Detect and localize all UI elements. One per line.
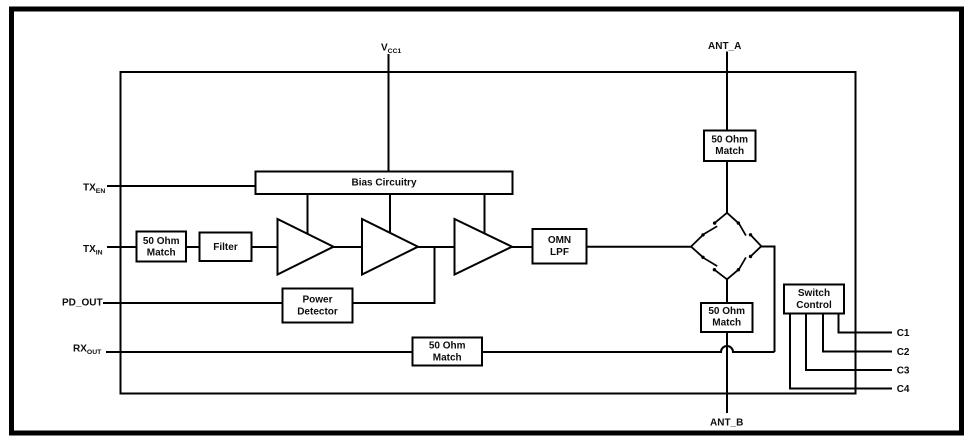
wire amplifier 3 to OMN LPF — [512, 246, 533, 248]
switch arm upper-right — [739, 224, 746, 236]
svg-text:50 Ohm: 50 Ohm — [143, 236, 180, 247]
switch arm upper-left — [703, 226, 717, 234]
svg-text:Bias Circuitry: Bias Circuitry — [351, 178, 416, 189]
svg-text:Match: Match — [715, 146, 744, 157]
wire Switch Control to C1 — [839, 314, 893, 333]
switch contact dot left-upper — [701, 233, 704, 236]
svg-text:C2: C2 — [897, 347, 910, 358]
switch contact dot right-upper — [749, 233, 752, 236]
wire switch right pole to RX line — [761, 247, 775, 353]
wire 50 Ohm Match (ANT_B) to ANT_B pin — [726, 332, 728, 413]
wire Switch Control to C3 — [806, 314, 892, 371]
wire Switch Control to C4 — [790, 314, 892, 389]
switch SP2T: top pole stub right — [727, 213, 738, 223]
switch arm lower-right — [739, 257, 746, 269]
wire 50 Ohm Match (RX) to switch right riser with hop over ANT_B — [482, 346, 775, 352]
svg-text:PD_OUT: PD_OUT — [62, 298, 103, 309]
block 50 Ohm Match (ANT_B) — [701, 303, 753, 332]
svg-text:Match: Match — [147, 248, 176, 259]
block Power Detector — [283, 289, 353, 323]
wire PD_OUT to Power Detector — [103, 302, 283, 304]
svg-text:Detector: Detector — [297, 306, 338, 317]
block 50 Ohm Match (TX input) — [137, 232, 187, 262]
wire ANT_A to 50 Ohm Match (top) — [726, 52, 728, 132]
switch contact dot left-lower — [701, 256, 704, 259]
wire switch bottom pole to 50 Ohm Match (ANT_B) — [726, 279, 728, 303]
amplifier stage 1 — [278, 219, 334, 275]
switch arm lower-left — [703, 258, 717, 266]
wire Bias Circuitry to amplifier 2 — [389, 194, 391, 233]
switch SP2T: bottom pole stub left — [714, 270, 727, 280]
amplifier stage 3 — [455, 219, 513, 275]
switch contact dot right-lower — [749, 255, 752, 258]
svg-text:50 Ohm: 50 Ohm — [429, 341, 466, 352]
svg-text:Match: Match — [433, 353, 462, 364]
wire 50 Ohm Match (top) to switch top pole — [726, 161, 728, 213]
wire Switch Control to C2 — [823, 314, 892, 352]
svg-text:C1: C1 — [897, 328, 910, 339]
svg-text:50 Ohm: 50 Ohm — [711, 135, 748, 146]
wire amplifier 2 to amplifier 3 — [418, 246, 455, 248]
svg-text:Control: Control — [796, 300, 832, 311]
switch contact dot top-left — [713, 221, 716, 224]
wire Bias Circuitry to amplifier 1 — [307, 194, 309, 234]
wire OMN LPF to switch left pole — [587, 246, 692, 248]
svg-text:Match: Match — [712, 318, 741, 329]
switch contact dot bottom-left — [713, 268, 716, 271]
switch SP2T: left pole stub up — [691, 235, 703, 247]
switch SP2T: bottom pole stub right — [727, 270, 738, 280]
svg-text:50 Ohm: 50 Ohm — [708, 306, 745, 317]
block OMN LPF — [533, 229, 587, 264]
svg-text:ANT_A: ANT_A — [708, 41, 741, 52]
svg-text:OMN: OMN — [548, 235, 571, 246]
switch SP2T: top pole stub left — [715, 213, 727, 223]
wire TX_EN to Bias Circuitry — [107, 185, 255, 187]
wire 50 Ohm Match to Filter — [186, 246, 200, 248]
wire VCC1 to Bias Circuitry — [388, 54, 390, 171]
wire RX_OUT to 50 Ohm Match (RX) — [106, 351, 413, 353]
switch contact dot bottom-right — [737, 268, 740, 271]
svg-text:Filter: Filter — [213, 242, 238, 253]
switch contact dot top-right — [737, 221, 740, 224]
svg-text:C3: C3 — [897, 366, 910, 377]
svg-text:Switch: Switch — [798, 288, 830, 299]
IC block boundary — [121, 72, 856, 394]
wire Filter to amplifier 1 — [252, 246, 279, 248]
svg-text:ANT_B: ANT_B — [710, 418, 743, 429]
block Filter — [200, 233, 252, 262]
switch SP2T: left pole stub down — [691, 247, 703, 258]
block Switch Control — [784, 285, 844, 314]
svg-text:Power: Power — [302, 294, 332, 305]
switch SP2T: right pole stub up — [751, 235, 762, 246]
wire TX_IN to 50 Ohm Match — [107, 246, 136, 248]
svg-text:C4: C4 — [897, 384, 910, 395]
wire Power Detector tap to TX line — [353, 247, 435, 303]
block Bias Circuitry — [256, 172, 513, 195]
amplifier stage 2 — [362, 219, 418, 275]
block 50 Ohm Match (RX) — [413, 338, 483, 366]
block 50 Ohm Match (ANT_A) — [704, 131, 756, 162]
svg-text:LPF: LPF — [550, 247, 569, 258]
switch SP2T: right pole stub down — [751, 246, 762, 256]
wire amplifier 1 to amplifier 2 — [334, 246, 363, 248]
wire Bias Circuitry to amplifier 3 — [484, 194, 486, 234]
